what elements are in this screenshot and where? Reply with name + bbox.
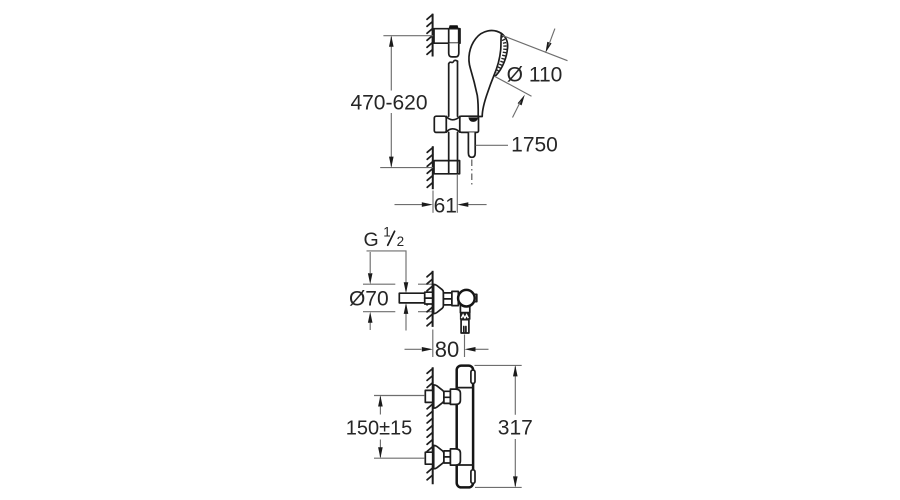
rail break squiggle <box>449 60 458 64</box>
arrow down 470-620 <box>389 157 394 168</box>
dimension line 61 left <box>395 204 423 206</box>
svg-text:470-620: 470-620 <box>350 91 427 114</box>
bottom handle <box>471 470 475 484</box>
arrow down O70 <box>368 273 373 284</box>
arrow 80 right-pointing <box>422 347 433 352</box>
arrow up 317 <box>513 365 518 376</box>
escutcheon cone <box>434 284 444 313</box>
slider holder clamp <box>446 116 460 132</box>
dimension line 61 right <box>468 204 487 206</box>
arrow down 317 <box>513 476 518 487</box>
top union escutcheon <box>434 385 444 408</box>
cylinder ring <box>452 291 458 305</box>
svg-text:317: 317 <box>498 417 533 440</box>
rail top cap <box>449 25 459 29</box>
arrow 80 left-pointing <box>465 347 476 352</box>
bottom union escutcheon <box>434 445 444 468</box>
ball screw nub <box>474 294 477 301</box>
dimension line 80 left <box>405 348 422 350</box>
hand shower body <box>469 31 507 117</box>
top union coupling nut <box>450 389 460 404</box>
dim line O110 bottom tangent <box>494 76 531 96</box>
outlet collar <box>460 305 469 312</box>
arrow up O70 <box>368 312 373 323</box>
extension line 80 right <box>464 335 466 358</box>
dim line O110 top tangent <box>503 36 568 61</box>
slider holder right block <box>460 116 479 132</box>
wall line lower <box>427 146 433 189</box>
svg-text:1750: 1750 <box>511 134 558 157</box>
extension lines O70 <box>363 284 432 312</box>
bottom bracket <box>434 161 460 174</box>
slider holder left block <box>434 116 446 132</box>
spray face crescent <box>494 34 508 76</box>
top bracket <box>434 29 460 44</box>
extension line 61 left <box>432 191 434 213</box>
knurled hose nut <box>460 313 471 320</box>
label G 1/2 <box>364 225 405 251</box>
top union nut behind wall <box>425 390 432 402</box>
svg-text:61: 61 <box>434 195 457 218</box>
rail upper tube <box>449 43 459 57</box>
handle socket dark <box>468 117 478 122</box>
dim line G thread lower <box>405 305 407 331</box>
extension line top (470-620) <box>383 35 433 37</box>
rail lower tube <box>449 61 458 174</box>
body seam bottom <box>457 464 473 466</box>
hose shank <box>468 132 475 157</box>
dim line 150 <box>379 397 381 458</box>
spray face nozzles <box>496 37 505 73</box>
extension line 80 left <box>432 330 434 358</box>
bottom union ring nut <box>444 451 451 463</box>
leader under G 1/2 <box>367 251 407 291</box>
leader 1750 <box>476 144 508 146</box>
ball joint <box>458 290 475 307</box>
extension line bottom (470-620) <box>380 167 433 169</box>
svg-text:Ø70: Ø70 <box>349 287 389 310</box>
extension line 317 top <box>475 364 522 366</box>
extension line 61 right <box>456 175 458 213</box>
top union ring nut <box>444 391 451 403</box>
dimension line 80 right <box>476 348 489 350</box>
svg-text:2: 2 <box>397 234 405 249</box>
hose dash-dot centerline <box>471 160 473 187</box>
arrow down G thread <box>404 282 409 293</box>
arrow O110 bottom <box>513 95 525 118</box>
mixer body <box>457 366 473 488</box>
dim line 317 <box>514 366 516 486</box>
wall line bottom <box>427 367 433 484</box>
G1/2 pipe stub <box>399 293 425 303</box>
top handle <box>471 370 475 384</box>
arrow up 470-620 <box>389 36 394 47</box>
svg-text:150±15: 150±15 <box>346 418 413 440</box>
svg-text:80: 80 <box>435 337 459 362</box>
svg-text:Ø 110: Ø 110 <box>507 64 563 87</box>
arrow up G thread <box>404 303 409 314</box>
arrow 61 left-pointing <box>457 202 468 207</box>
extension line 150 top <box>374 395 425 397</box>
wall line upper <box>427 14 433 57</box>
arrow O110 top <box>546 29 555 53</box>
body seam top <box>457 387 473 389</box>
pipe nut <box>425 292 433 304</box>
dim line O70 <box>369 252 371 330</box>
svg-text:G: G <box>364 229 379 251</box>
ring nut <box>443 293 452 305</box>
hose shank outlet <box>461 320 469 333</box>
arrow 61 right-pointing <box>422 202 433 207</box>
bottom union coupling nut <box>450 449 460 465</box>
extension line 150 bottom <box>374 457 425 459</box>
svg-text:1: 1 <box>383 225 391 240</box>
arrow down 150 <box>378 447 383 458</box>
dimension line 470-620 <box>390 37 392 167</box>
extension line 317 bottom <box>475 486 522 488</box>
arrow up 150 <box>378 396 383 407</box>
bottom union nut behind wall <box>425 452 432 464</box>
wall line middle <box>427 271 433 327</box>
